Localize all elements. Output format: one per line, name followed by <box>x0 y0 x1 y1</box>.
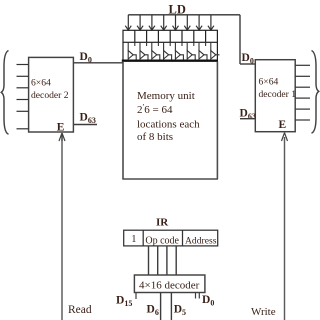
arrow 6 into register bit <box>184 15 190 30</box>
svg-text:Op code: Op code <box>145 235 179 246</box>
register top cell row (8 bit latch row) <box>123 30 217 42</box>
right curly brace for decoder 1 outputs <box>312 51 319 134</box>
svg-text:decoder 1: decoder 1 <box>259 89 297 100</box>
wires: op code bits from IR to 4x16 decoder <box>149 246 177 275</box>
IR cell divider 1 <box>142 230 144 246</box>
svg-text:locations each: locations each <box>137 119 200 131</box>
svg-text:6×64: 6×64 <box>259 76 279 87</box>
svg-text:decoder 2: decoder 2 <box>31 90 69 101</box>
arrowhead into decoder 1 E <box>282 133 285 141</box>
buffer cell 7 <box>199 42 207 60</box>
buffer cell 3 <box>152 42 160 60</box>
arrow 2 into register bit <box>137 15 143 30</box>
svg-text:Write: Write <box>251 306 276 318</box>
wire: right vertical drop from LD bus to D0 of decoder 1 <box>239 15 241 64</box>
svg-text:6×64: 6×64 <box>31 77 51 88</box>
svg-text:of 8 bits: of 8 bits <box>137 131 173 143</box>
buffer cell 2 <box>140 42 148 60</box>
memory unit box <box>122 62 218 180</box>
arrow 3 into register bit <box>149 15 155 30</box>
arrow 4 into register bit <box>161 15 167 30</box>
buffer cell 8 <box>211 42 220 59</box>
decoder output stub left <box>135 293 137 300</box>
decoder output stubs right <box>195 293 197 299</box>
svg-text:Memory unit: Memory unit <box>137 90 195 102</box>
arrow 7 into register bit <box>196 15 202 30</box>
wire: D6 output line <box>160 293 162 320</box>
arrowhead into decoder 2 E <box>59 133 62 141</box>
decoder 1 box (right) <box>255 60 295 132</box>
buffer cell 1 <box>128 42 136 60</box>
register buffer row sides <box>123 42 217 60</box>
wire: D0 input into decoder 1 <box>240 63 255 65</box>
arrow 5 into register bit <box>173 15 179 30</box>
IR register box <box>124 230 218 246</box>
svg-text:4×16 decoder: 4×16 decoder <box>139 280 200 292</box>
wire: D63 into decoder 1 <box>240 118 255 120</box>
IR cell divider 2 <box>182 230 184 246</box>
svg-text:Address: Address <box>185 235 217 246</box>
decoder 2 box (left) <box>29 57 74 132</box>
arrow 1 into register bit <box>125 15 131 30</box>
buffer cell 6 <box>187 42 195 60</box>
wire: LD load bus top horizontal <box>128 14 240 16</box>
wire: D5 output line <box>170 293 172 320</box>
buffer cell 5 <box>175 42 183 60</box>
left curly brace for address inputs <box>1 51 8 135</box>
svg-text:1: 1 <box>131 234 136 245</box>
arrow 8 into register bit <box>208 15 214 30</box>
buffer row divider stubs <box>135 42 206 46</box>
4x16 decoder box <box>134 275 205 293</box>
Read control line <box>61 136 63 320</box>
svg-text:IR: IR <box>156 217 169 229</box>
svg-text:E: E <box>279 119 287 131</box>
wire: decoder 2 D0 output to memory <box>73 62 123 64</box>
buffer cell 4 <box>164 42 172 60</box>
svg-text:2′6 = 64: 2′6 = 64 <box>137 103 173 117</box>
wire: decoder 2 D63 stub <box>73 124 97 126</box>
decoder 2 input lines (6 address bits) <box>17 65 29 129</box>
Write control line <box>284 137 286 320</box>
svg-text:Read: Read <box>68 304 92 316</box>
register bottom bold bus line <box>122 60 218 62</box>
decoder 1 output lines (6) <box>295 65 310 120</box>
svg-text:E: E <box>57 122 65 134</box>
